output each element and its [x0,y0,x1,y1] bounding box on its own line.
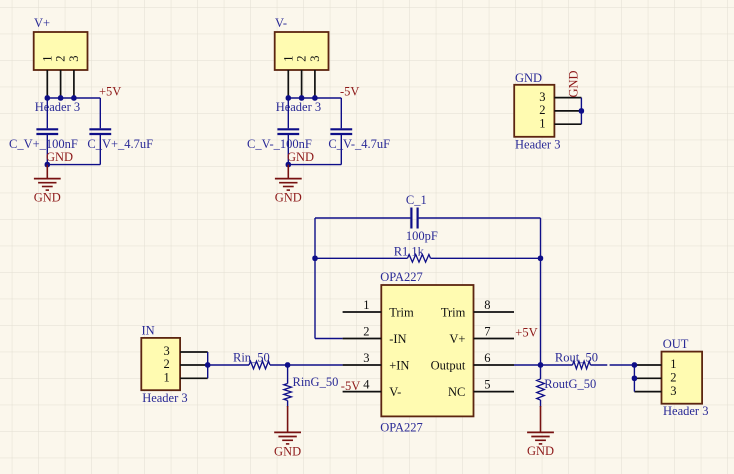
svg-text:RoutG_50: RoutG_50 [544,377,596,391]
svg-text:RinG_50: RinG_50 [293,375,339,389]
wire op-amp output to node [514,364,541,366]
resistor RinG_50 [284,384,292,401]
wire RinG top [287,365,289,384]
resistor RoutG_50 [537,379,545,400]
svg-text:NC: NC [448,385,465,399]
svg-text:8: 8 [484,298,490,312]
svg-text:V+: V+ [449,332,465,346]
wire IN header bus [207,352,209,378]
svg-text:Header 3: Header 3 [276,100,321,114]
wire GND header bus [580,98,582,125]
svg-text:GND: GND [46,150,73,164]
capacitor C_V-_100nF [287,98,289,128]
connector header box (V+) [34,32,88,70]
svg-text:3: 3 [539,90,545,104]
connector header box (OUT) [662,352,703,404]
svg-text:+5V: +5V [99,85,121,99]
svg-text:2: 2 [54,55,68,61]
svg-text:GND: GND [274,444,301,458]
svg-text:2: 2 [295,55,309,61]
svg-text:-5V: -5V [340,85,359,99]
svg-text:6: 6 [484,351,490,365]
resistor Rout_50 [573,361,591,369]
wire gnd bus (V- section) [288,164,341,166]
svg-text:2: 2 [164,357,170,371]
resistor R1 [408,255,431,263]
svg-text:GND: GND [515,71,542,85]
junction dot gnd bus (V+) [45,162,50,167]
wire RoutG bottom [540,400,542,407]
capacitor C_V+_100nF [46,98,48,128]
svg-text:3: 3 [670,384,676,398]
wire +5V corner to capacitor [99,98,101,128]
ground stem (RoutG) [540,406,542,432]
junction dot feedback right [538,256,543,261]
wire feedback lower right [431,257,541,259]
header pins (GND) [554,97,581,99]
wire -5V corner to capacitor [340,98,342,128]
svg-text:C_V-_100nF: C_V-_100nF [247,137,312,151]
junction dot (OUT header pin 1) [632,362,637,367]
svg-text:Header 3: Header 3 [663,404,708,418]
wire RoutG top [540,365,542,379]
wire gnd bus (V+ section) [47,164,100,166]
capacitor C_1 [410,208,412,229]
svg-text:1: 1 [40,55,54,61]
svg-text:Trim: Trim [389,306,414,320]
svg-text:OPA227: OPA227 [380,270,423,284]
junction dot output node [538,362,543,367]
header pins (V-) [287,70,289,98]
svg-text:C_1: C_1 [406,193,427,207]
wire to op-amp -IN [315,338,343,340]
svg-text:GND: GND [527,444,554,458]
svg-text:-IN: -IN [389,332,406,346]
svg-text:OPA227: OPA227 [380,420,423,434]
svg-text:100pF: 100pF [406,229,438,243]
svg-text:C_V-_4.7uF: C_V-_4.7uF [328,137,390,151]
svg-text:1: 1 [670,357,676,371]
wire Rin to op-amp +IN [270,364,343,366]
wire RinG bottom [287,401,289,408]
svg-text:2: 2 [363,325,369,339]
svg-text:7: 7 [484,325,490,339]
wire Rout to OUT segment 1 [591,364,608,366]
svg-text:C_V+_4.7uF: C_V+_4.7uF [87,137,153,151]
svg-text:IN: IN [142,324,155,338]
ground symbol (V- section) [275,178,302,180]
svg-text:GND: GND [287,150,314,164]
svg-text:V-: V- [389,385,401,399]
wire feedback top left [315,217,410,219]
svg-text:2: 2 [670,371,676,385]
svg-text:+IN: +IN [389,359,409,373]
ground symbol (RoutG) [527,431,554,433]
op-amp U1 body [381,285,473,416]
wire output to Rout [541,364,573,366]
junction dot (OUT header pin 2) [632,376,637,381]
svg-text:Header 3: Header 3 [515,137,560,151]
ground stem (V-) [287,165,289,179]
svg-text:2: 2 [539,103,545,117]
svg-text:GND: GND [567,70,581,97]
svg-text:GND: GND [34,191,61,205]
svg-text:1: 1 [281,55,295,61]
ground stem (V+) [46,165,48,179]
junction dot (IN header) [205,362,210,367]
junction dots on V+ net [45,95,50,100]
ground symbol (V+ section) [34,178,61,180]
header pins (V+) [46,70,48,98]
svg-text:3: 3 [164,344,170,358]
svg-text:Trim: Trim [441,306,466,320]
svg-text:+5V: +5V [515,325,537,339]
svg-text:C_V+_100nF: C_V+_100nF [9,137,78,151]
wire feedback lower left [315,257,408,259]
svg-text:-5V: -5V [341,379,360,393]
svg-text:1: 1 [164,371,170,385]
wire V+ pin bus [47,97,100,99]
wire feedback left vertical [314,218,316,339]
svg-text:1: 1 [363,298,369,312]
svg-text:GND: GND [275,191,302,205]
svg-text:V+: V+ [34,16,50,30]
op-amp right pins 8 7 6 5 [474,311,515,313]
ground symbol (RinG) [274,431,301,433]
svg-text:V-: V- [275,16,287,30]
svg-text:Header 3: Header 3 [142,391,187,405]
svg-text:3: 3 [308,55,322,61]
capacitor C_V-_4.7uF [330,128,352,130]
capacitor C_V+_4.7uF [89,128,111,130]
svg-text:Header 3: Header 3 [35,100,80,114]
svg-text:3: 3 [363,351,369,365]
wire OUT header bus [633,365,635,392]
junction dot RinG node [285,362,290,367]
svg-text:Rout_50: Rout_50 [555,351,598,365]
junction dot feedback left [312,256,317,261]
connector header box (V-) [275,32,329,70]
svg-text:OUT: OUT [663,337,689,351]
connector header box (IN) [141,338,180,390]
svg-text:1: 1 [539,116,545,130]
svg-text:4: 4 [363,378,370,392]
resistor Rin_50 [249,361,270,369]
wire IN to Rin [208,364,249,366]
wire Rout to OUT segment 2 [610,364,635,366]
wire V- pin bus [288,97,341,99]
header pins (IN) [180,351,208,353]
svg-text:5: 5 [484,378,490,392]
op-amp left pins 1 2 3 4 [343,311,382,313]
junction dot (GND header) [579,108,584,113]
ground stem (RinG) [287,406,289,432]
wire feedback right vertical [540,218,542,365]
connector header box (GND) [514,85,554,137]
junction dot gnd bus (V-) [286,162,291,167]
svg-text:Output: Output [431,359,466,373]
svg-text:3: 3 [67,55,81,61]
junction dots on V- net [286,95,291,100]
wire feedback top right [419,217,541,219]
header pins (OUT) [634,364,661,366]
